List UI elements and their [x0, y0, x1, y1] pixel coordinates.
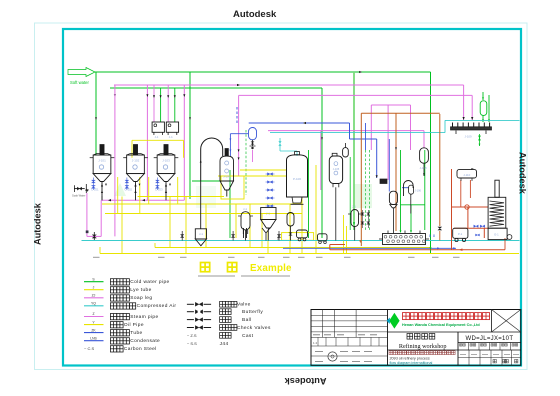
svg-text:Oil Pipe: Oil Pipe: [124, 322, 144, 328]
svg-text:LNS: LNS: [90, 336, 97, 340]
svg-text:Refining workshop: Refining workshop: [399, 343, 447, 350]
svg-text:J-108: J-108: [420, 166, 427, 170]
svg-text:J44: J44: [220, 341, 229, 347]
svg-text:YQ: YQ: [91, 302, 96, 306]
svg-text:ZJ: ZJ: [92, 294, 96, 298]
svg-text:ZK: ZK: [91, 328, 96, 332]
svg-text:8: 8: [278, 237, 280, 241]
svg-text:C-103: C-103: [155, 188, 163, 192]
svg-text:Butterfly: Butterfly: [242, 309, 263, 315]
svg-text:C-102: C-102: [125, 188, 133, 192]
svg-text:Cast: Cast: [242, 333, 254, 339]
svg-text:Compressed Air: Compressed Air: [137, 303, 177, 309]
svg-text:Autodesk: Autodesk: [233, 9, 277, 20]
svg-text:8: 8: [433, 234, 435, 238]
svg-text:Valve: Valve: [237, 302, 251, 308]
svg-text:flow diagram internaltional: flow diagram internaltional: [390, 361, 433, 365]
svg-text:J-1: J-1: [169, 135, 173, 139]
svg-text:J-103: J-103: [162, 159, 170, 163]
svg-text:Carbon Steel: Carbon Steel: [124, 346, 157, 352]
svg-text:J-1: J-1: [266, 212, 270, 216]
svg-text:~ Z.S: ~ Z.S: [187, 333, 197, 338]
svg-text:~ C.S: ~ C.S: [84, 346, 94, 351]
svg-text:J-101: J-101: [98, 159, 106, 163]
svg-text:J-102: J-102: [132, 159, 140, 163]
svg-text:J-1: J-1: [155, 135, 159, 139]
svg-text:Autodesk: Autodesk: [284, 376, 327, 386]
svg-text:WD=JL=JX=10T: WD=JL=JX=10T: [466, 336, 514, 342]
svg-text:J: J: [93, 285, 95, 289]
svg-text:J-105: J-105: [333, 167, 340, 171]
svg-text:Ball: Ball: [242, 317, 252, 323]
svg-text:J-1: J-1: [199, 232, 203, 236]
svg-text:Cold water pipe: Cold water pipe: [130, 279, 169, 285]
svg-text:Example: Example: [250, 263, 292, 274]
svg-text:J-1: J-1: [243, 207, 247, 211]
svg-text:Henan Wanda Chemical Equipment: Henan Wanda Chemical Equipment Co.,Ltd: [402, 323, 480, 327]
svg-text:Condensate: Condensate: [130, 338, 160, 344]
svg-text:Steam pipe: Steam pipe: [130, 314, 158, 320]
svg-text:J-104: J-104: [223, 175, 230, 179]
svg-text:Check Valves: Check Valves: [237, 325, 271, 331]
svg-text:P-1: P-1: [458, 232, 463, 236]
svg-text:Autodesk: Autodesk: [518, 152, 528, 195]
svg-text:Soft water: Soft water: [70, 80, 89, 85]
svg-text:E-1: E-1: [494, 233, 499, 237]
svg-text:Z: Z: [92, 312, 94, 316]
svg-text:Soap leg: Soap leg: [130, 295, 152, 301]
svg-text:20t/d oil refinery process: 20t/d oil refinery process: [390, 356, 430, 360]
svg-text:~ S.S: ~ S.S: [187, 341, 197, 346]
svg-text:P-106: P-106: [293, 177, 301, 181]
svg-text:Autodesk: Autodesk: [33, 202, 43, 245]
svg-text:Tube: Tube: [130, 330, 142, 336]
svg-text:1 2: 1 2: [313, 341, 318, 345]
svg-text:8: 8: [429, 234, 431, 238]
svg-text:J-106: J-106: [415, 189, 422, 193]
svg-text:J-110: J-110: [463, 173, 470, 177]
svg-text:C-101: C-101: [91, 188, 99, 192]
svg-text:Soak Water: Soak Water: [72, 194, 86, 198]
svg-text:J-1: J-1: [352, 205, 356, 209]
svg-text:J-109: J-109: [465, 135, 472, 139]
svg-text:Lye tube: Lye tube: [130, 287, 151, 293]
